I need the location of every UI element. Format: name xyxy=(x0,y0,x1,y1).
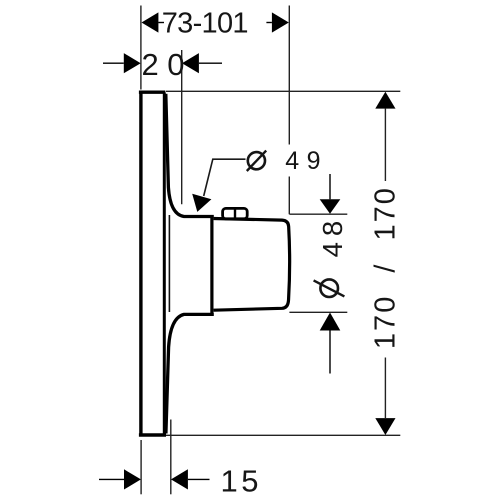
plate left edge xyxy=(139,91,142,437)
extension line left (wall plane x=141) xyxy=(140,6,142,90)
svg-text:49: 49 xyxy=(285,147,328,175)
dia48 top arrow xyxy=(320,174,341,214)
dia48 bottom arrow xyxy=(320,313,341,374)
sleeve knob interface line xyxy=(210,216,213,315)
svg-text:73-101: 73-101 xyxy=(162,8,248,40)
skirt upper silhouette with fillet into sleeve top xyxy=(166,94,214,217)
plate bottom edge xyxy=(139,433,166,437)
svg-text:48: 48 xyxy=(317,215,348,258)
dia 49 text xyxy=(247,151,266,171)
170/170 bottom arrow xyxy=(375,358,395,436)
dimension 20 right arrow xyxy=(182,53,222,73)
button on knob xyxy=(223,208,248,218)
dimension 73-101 right arrow xyxy=(266,12,288,32)
extension line right for 15 (x=170.8) xyxy=(170,420,172,495)
plate front face line xyxy=(163,92,166,435)
dimension 15 left arrow xyxy=(99,469,141,489)
extension line top for dia48 (y=214) xyxy=(289,213,347,215)
dimension 20 left arrow xyxy=(103,53,141,73)
leader for dia49 xyxy=(204,159,246,196)
extension line right of 73-101 (x=288.4, broken at text 49) xyxy=(288,6,290,215)
knob outline xyxy=(214,219,290,311)
170/170 top arrow xyxy=(375,92,395,181)
extension line top for 170 (y=91.3) xyxy=(166,90,401,92)
dia 48 text rotated xyxy=(314,279,345,297)
dimension 73-101 left arrow xyxy=(142,12,165,32)
extension line bottom for 170 (y=435.3) xyxy=(166,434,400,436)
leader arrowhead xyxy=(192,194,211,212)
plate top edge xyxy=(139,90,165,93)
svg-text:15: 15 xyxy=(221,464,262,499)
svg-text:170 / 170: 170 / 170 xyxy=(370,186,402,349)
dimension 15 right arrow xyxy=(171,469,210,489)
extension line for 20 (x=181.7) xyxy=(181,50,183,204)
thin edge line at plate face xyxy=(168,215,170,312)
extension line bottom for dia48 (y=311.7) xyxy=(289,311,347,313)
skirt lower silhouette with fillet from sleeve bottom xyxy=(166,314,214,433)
extension line left for 15 (x=141.1) xyxy=(140,440,142,494)
svg-text:20: 20 xyxy=(142,47,193,82)
